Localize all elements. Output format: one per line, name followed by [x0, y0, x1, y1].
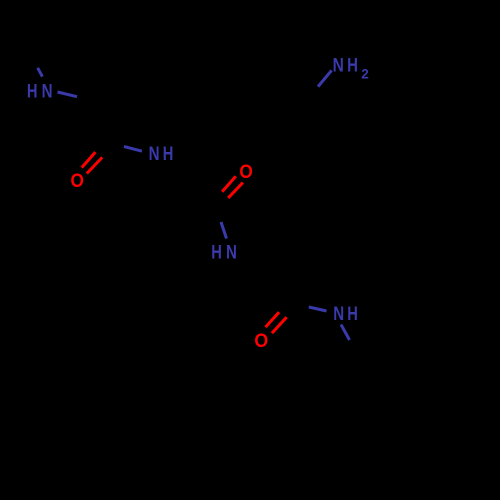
wire C2-N3 (blue half) [221, 222, 227, 239]
carbonyl C3=O3 double bond main line (red half) [272, 317, 287, 333]
wire C1-N2 (blue half) [124, 147, 142, 152]
svg-text:N: N [333, 55, 344, 77]
carbonyl C3=O3 double bond inner line (red half) [266, 312, 280, 327]
amide N5 label NH [333, 303, 358, 325]
svg-text:H: H [211, 241, 222, 263]
amine N4 label NH2 [333, 55, 369, 82]
wire N5-CH2 benzyl (blue half) [341, 325, 350, 341]
svg-text:N: N [226, 241, 237, 263]
svg-text:H: H [163, 143, 174, 165]
svg-text:O: O [239, 161, 252, 183]
carbonyl C2=O2 double bond inner line (red half) [222, 176, 236, 192]
amide N3 label HN [211, 241, 237, 263]
carbonyl C1=O1 double bond main line (red half) [87, 157, 102, 173]
carbonyl C1=O1 double bond inner line (red half) [82, 152, 96, 168]
amine N1 label HN [27, 81, 53, 103]
carbonyl C2=O2 double bond main line (red half) [228, 183, 243, 198]
svg-text:O: O [71, 170, 84, 192]
svg-text:N: N [42, 81, 53, 103]
svg-text:H: H [347, 55, 358, 77]
svg-text:N: N [149, 143, 160, 165]
amide N2 label NH [149, 143, 174, 165]
wire N1-CH3 (blue half) [38, 68, 43, 77]
svg-text:O: O [254, 330, 268, 352]
wire N1-Calpha (blue half) [58, 92, 78, 97]
svg-text:2: 2 [361, 65, 369, 81]
svg-text:H: H [27, 81, 38, 103]
wire C3-N5 (blue half) [309, 307, 327, 311]
wire Caryl-N4 (blue half) [318, 70, 332, 86]
svg-text:N: N [333, 303, 344, 325]
svg-text:H: H [347, 303, 358, 325]
